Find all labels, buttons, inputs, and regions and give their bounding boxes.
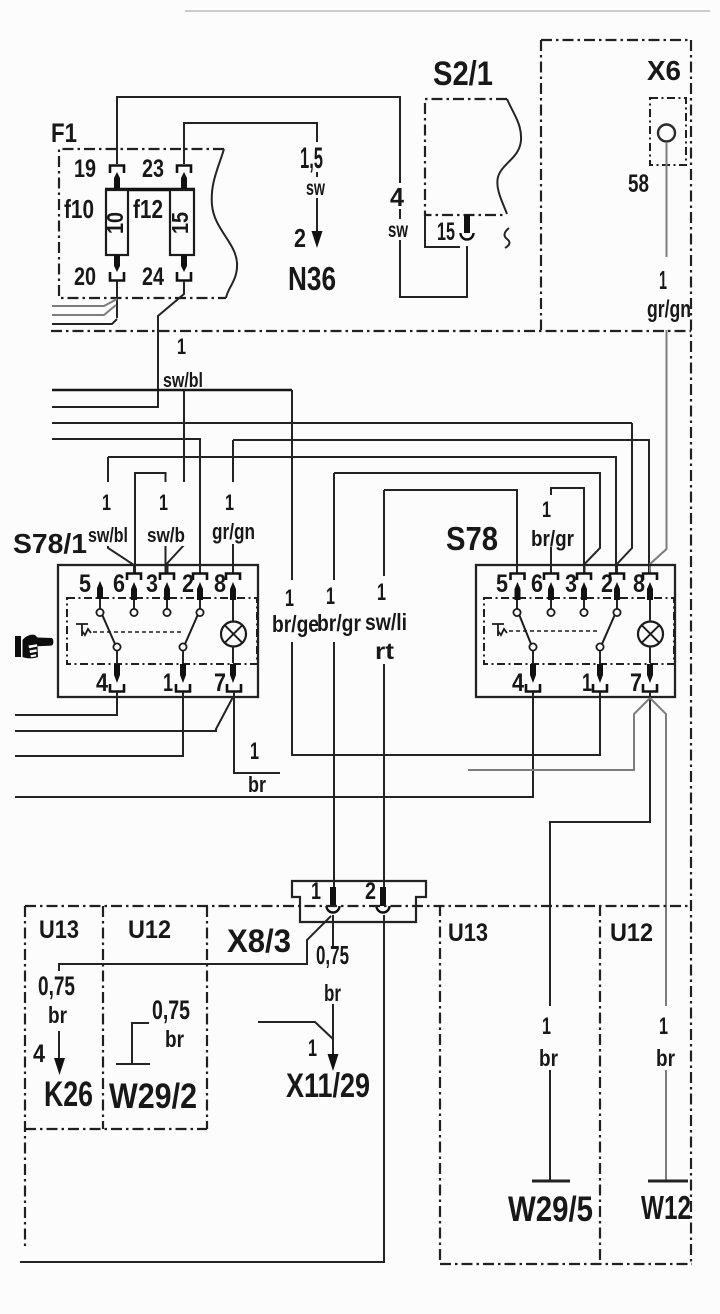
svg-text:1: 1 [163, 669, 173, 697]
svg-text:br: br [248, 772, 266, 797]
S78 pin 1 lower spade [597, 664, 603, 683]
svg-text:1: 1 [326, 583, 335, 610]
svg-text:1: 1 [542, 497, 551, 522]
label sw (wire colour) [304, 177, 327, 198]
svg-text:10: 10 [102, 212, 128, 234]
wire br/gr down to X8/3 pin 1 [333, 473, 335, 888]
S78/1 pin 1 bracket [176, 684, 190, 692]
svg-text:2: 2 [365, 878, 376, 905]
svg-text:gr/gn: gr/gn [647, 296, 691, 323]
svg-text:2: 2 [294, 223, 306, 253]
svg-text:K26: K26 [44, 1075, 93, 1114]
dash-dot divider x207 [206, 906, 208, 1129]
wire F1 pin19 to S2/1 pin15 (top run) [117, 97, 467, 297]
S78/1 pin 4 bracket [110, 684, 124, 692]
S78/1 contact stems top [100, 599, 200, 609]
svg-text:4: 4 [390, 182, 405, 212]
svg-text:N36: N36 [288, 260, 336, 297]
arrow to K26 [54, 1031, 65, 1075]
S78 switch lever 1 [520, 616, 532, 645]
S2/1 pin compartment wavy break [505, 228, 510, 248]
svg-text:1: 1 [102, 490, 111, 515]
S78/1 pin 3 spade [164, 582, 170, 600]
fuse f10 lower spade [114, 255, 120, 272]
label bg br/gr jumper [530, 495, 575, 547]
label bg S78/1 jumper sw/bl [146, 482, 186, 546]
S78 mechanical coupling dashed line [509, 630, 598, 632]
S78 pin 7 bracket [643, 684, 657, 692]
svg-text:19: 19 [74, 155, 96, 183]
svg-text:br: br [324, 980, 341, 1006]
switch unit S78/1 inner dash-dot box [67, 598, 257, 664]
pin 24 bracket [177, 272, 191, 281]
fuse f12 body [170, 190, 194, 255]
svg-text:sw/b: sw/b [147, 525, 185, 547]
svg-text:W29/2: W29/2 [109, 1077, 197, 1116]
svg-text:1: 1 [159, 490, 168, 515]
svg-text:20: 20 [74, 263, 96, 291]
bus wire y457 sw/bl to S78 pin 2 [108, 457, 616, 574]
S78/1 pin 2 bracket [193, 574, 207, 581]
fuse box F1 dash-dot outline with wavy break right edge [59, 149, 237, 298]
wire S78/1 pin4 to left edge [15, 692, 117, 715]
label bg W29/5 wire [536, 1006, 564, 1070]
S78/1 lamp symbol [221, 600, 246, 663]
label bg W12 wire [652, 1006, 680, 1070]
svg-text:br/gr: br/gr [531, 526, 574, 551]
S78 pin 4 lower spade [530, 664, 536, 683]
S78/1 pin 8 bracket [226, 574, 240, 581]
S78/1 switch lever 1 [103, 616, 116, 645]
wire S78 pin7 diagonal stub to x467 [468, 698, 650, 770]
bus wire y439 left segment to S78/1 pin 2 [52, 439, 200, 574]
svg-text:5: 5 [79, 570, 91, 598]
S78/1 switch lever 2 [185, 616, 198, 645]
dash-dot left edge of lower-left boxes [24, 906, 26, 1247]
S78 pin 3 bracket [577, 574, 591, 581]
X6 terminal circle [658, 125, 675, 142]
label 4 (wire size) bg [389, 183, 411, 209]
svg-text:4: 4 [33, 1040, 45, 1068]
switch unit S78/1 outer box [58, 565, 258, 697]
S2/1 pin 15 terminal (bar and cup) [461, 215, 474, 240]
pin 23 spade terminal [181, 172, 187, 189]
S2/1 pin compartment [425, 215, 460, 247]
svg-text:br/ge: br/ge [272, 611, 319, 637]
svg-text:1: 1 [659, 1013, 668, 1040]
S78 pin 6 spade [548, 582, 554, 600]
label bg sw/li rt [366, 576, 408, 664]
S78/1 pin 5 spade [97, 581, 103, 599]
svg-text:S78: S78 [446, 520, 498, 557]
label sw (wire colour) bg [386, 219, 410, 240]
S78 pin 8 bracket [643, 574, 657, 581]
svg-text:24: 24 [142, 263, 164, 291]
pin 23 bracket [177, 166, 191, 174]
S78/1 pin 3 bracket [160, 574, 174, 581]
bus wire y423 to S78 pin 2 [52, 422, 632, 424]
S78/1 T actuator symbol [76, 624, 91, 636]
svg-text:1: 1 [377, 579, 386, 606]
svg-text:br: br [165, 1026, 184, 1052]
svg-text:S78/1: S78/1 [13, 528, 87, 559]
svg-text:U12: U12 [610, 919, 653, 947]
switch unit S78 inner dash-dot box [484, 598, 674, 664]
label bg br/gr [322, 580, 364, 642]
svg-text:0,75: 0,75 [152, 995, 190, 1025]
S78/1 contact circles top [96, 609, 203, 616]
svg-text:3: 3 [146, 570, 158, 598]
svg-text:1: 1 [311, 878, 321, 905]
S78 switch lever 2 [602, 616, 615, 645]
connector X8/3 housing [292, 881, 426, 922]
terminal bar W29/5 [532, 1180, 570, 1183]
S78/1 lower contact circles [113, 643, 186, 650]
S78 pin 5 spade [515, 582, 521, 600]
wire fan from pin20 line 2 [52, 305, 116, 315]
dash-dot divider x103 [102, 906, 104, 1129]
svg-text:br: br [656, 1045, 675, 1071]
svg-text:15: 15 [437, 218, 455, 246]
svg-text:1: 1 [250, 738, 259, 765]
wire S78 pin7 to W29/5 [550, 692, 650, 1181]
S78/1 mechanical coupling dashed line [93, 631, 183, 633]
svg-text:1: 1 [542, 1013, 551, 1040]
svg-text:gr/gn: gr/gn [212, 519, 255, 544]
wire sw/bl main vertical to S78/1 pin 3 [168, 391, 185, 574]
svg-text:U13: U13 [39, 916, 79, 944]
wire F1 pin23 to N36 with arrow [184, 123, 323, 248]
wire fan from pin20 line 3 [52, 319, 117, 324]
S78 lamp symbol [638, 600, 663, 663]
wire X6 58 down [666, 142, 668, 257]
svg-text:6: 6 [531, 570, 543, 598]
svg-text:1: 1 [582, 669, 592, 697]
S78/1 pin 2 spade [197, 582, 203, 600]
switch S2/1 dash-dot box with wavy right edge [425, 99, 521, 215]
label bg gr/gn [212, 482, 256, 544]
S78/1 pin 1 lower spade [180, 664, 186, 683]
svg-text:U13: U13 [448, 919, 488, 947]
bus wire gr/gn y440 S78/1 pin8 to S78 pin8 [233, 440, 649, 574]
svg-text:23: 23 [142, 155, 164, 183]
outer dash-dot border top (X6 compartment) [541, 39, 691, 41]
S78/1 pin 6 spade [131, 582, 137, 600]
fuse f10 body [106, 190, 128, 255]
fuse feed bar [105, 188, 195, 191]
label bg br/ge [272, 580, 321, 642]
S78/1 lower stems [117, 651, 183, 664]
fuse f12 lower spade [181, 255, 187, 272]
S78 pin 5 bracket [511, 574, 525, 581]
wire drop to S78/1 pin 6 [108, 457, 134, 574]
wire X8/3 pin2 down and bottom run [20, 915, 384, 1262]
svg-text:0,75: 0,75 [316, 940, 349, 970]
label bg S78/1 sw/bl feed [88, 482, 130, 546]
svg-text:sw/li: sw/li [365, 609, 407, 635]
svg-text:7: 7 [630, 669, 642, 697]
dash-dot border y906 through X8/3 [25, 905, 692, 907]
S78 pin 8 spade [647, 582, 653, 600]
svg-text:br: br [539, 1045, 558, 1071]
svg-text:6: 6 [113, 570, 125, 598]
svg-text:X11/29: X11/29 [286, 1067, 370, 1105]
S78 pin 2 bracket [610, 574, 624, 581]
S78 pin 2 spade [614, 582, 620, 600]
svg-text:7: 7 [214, 669, 226, 697]
branch wire joining X11/29 run [258, 1022, 333, 1039]
svg-text:W12: W12 [641, 1189, 691, 1226]
switch unit S78 outer box [476, 565, 675, 697]
wire F1 pin20 down [116, 281, 118, 318]
svg-text:4: 4 [512, 669, 524, 697]
S78 lower contact circles [529, 643, 603, 650]
S78 pin 4 bracket [526, 684, 540, 692]
label 1,5 (wire size) [298, 142, 325, 172]
svg-text:1: 1 [308, 1035, 317, 1062]
svg-text:X6: X6 [647, 55, 681, 86]
svg-text:f10: f10 [64, 194, 94, 224]
S78 pin 6 bracket [544, 574, 558, 581]
svg-text:1: 1 [177, 334, 186, 359]
faint top crop line [185, 10, 710, 12]
wire gr/gn drop to S78/1 pin 8 [232, 440, 234, 574]
svg-text:1,5: 1,5 [300, 142, 323, 175]
svg-text:rt: rt [375, 638, 394, 664]
svg-text:W29/5: W29/5 [508, 1190, 593, 1229]
svg-text:0,75: 0,75 [38, 971, 75, 1001]
X8/3 pin 1 terminal (bar and cup) [327, 887, 340, 913]
svg-text:1: 1 [285, 585, 294, 612]
wire X8/3 pin1 to K26 run [59, 916, 331, 971]
dash-dot left edge of lower-right boxes [439, 905, 441, 1264]
pin 19 spade terminal [114, 172, 120, 189]
dash-dot bottom of lower-right boxes [440, 1263, 692, 1265]
svg-text:5: 5 [496, 570, 508, 598]
svg-text:3: 3 [565, 570, 577, 598]
S78/1 pin 8 spade [230, 582, 236, 600]
wire sw/li rt down to X8/3 pin 2 [383, 490, 385, 888]
outer dash-dot border left of X6 compartment [540, 40, 542, 330]
svg-text:F1: F1 [51, 118, 77, 148]
dash-dot divider x600 [599, 905, 601, 1264]
svg-text:sw/bl: sw/bl [163, 370, 203, 392]
wire X6 gr/gn down to S78 pin 8 diagonal [650, 330, 667, 574]
S78 jumper wire pin6 to pin3 [551, 488, 584, 574]
wire fan from pin20 line 1 [52, 299, 117, 306]
S78 pin 1 bracket [593, 684, 607, 692]
wire S78 pin2 diagonal from y423 bus [617, 423, 632, 574]
terminal bar W12 [648, 1180, 688, 1183]
svg-text:sw/bl: sw/bl [88, 525, 128, 547]
wire F1 pin24 down with jog [52, 281, 184, 407]
connector X6 dash-dot box [650, 98, 686, 165]
bus wire y390 to br/ge drop [52, 389, 292, 391]
S78/1 jumper wire pin6 to pin3 [135, 473, 166, 574]
S78 T actuator symbol [492, 624, 507, 636]
svg-text:1: 1 [659, 265, 667, 295]
S78 contact stems top [517, 600, 617, 609]
arrow to X11/29 [328, 1004, 339, 1071]
hand pointer icon [15, 635, 53, 659]
svg-text:br: br [48, 1002, 67, 1028]
svg-text:f12: f12 [133, 194, 163, 224]
wire S78/1 pin7 stub with label 1 br [234, 692, 280, 773]
S78 pin 7 lower spade [647, 664, 653, 683]
svg-text:15: 15 [167, 212, 193, 234]
bus wire y797 S78 pin4 to left edge [15, 692, 533, 797]
S78/1 pin 4 lower spade [114, 664, 120, 683]
pin 19 bracket [110, 166, 124, 174]
wire S78 pin7 to W12 [650, 698, 666, 1181]
svg-text:8: 8 [214, 570, 226, 598]
svg-text:4: 4 [96, 669, 108, 697]
ground terminal W29/2 [116, 1023, 150, 1064]
wire S78/1 pin1 to left edge [15, 692, 183, 756]
S78 lower stems [533, 651, 600, 664]
svg-text:sw: sw [306, 177, 325, 200]
svg-text:U12: U12 [128, 916, 171, 944]
S78/1 pin 7 bracket [227, 684, 241, 692]
svg-text:1: 1 [225, 490, 234, 515]
wire X8/3 pin1 down to X11/29 [332, 915, 334, 947]
dash-dot bottom of lower-left boxes [25, 1128, 207, 1130]
wire br/ge vertical and run to S78 pin 1 [292, 390, 600, 755]
S78/1 pin 6 bracket [127, 574, 141, 581]
outer dash-dot border horizontal y=331 [51, 330, 691, 332]
svg-text:S2/1: S2/1 [433, 55, 493, 93]
bus wire br/gr y473 X8/3 pin1 to S78 pin 3 [334, 473, 600, 574]
svg-text:sw: sw [388, 219, 408, 242]
svg-text:58: 58 [628, 170, 649, 198]
pin 20 bracket [110, 272, 124, 281]
outer dash-dot border right [690, 40, 692, 1264]
bus wire sw/li rt y490 X8/3 pin2 to S78 pin 5 [384, 490, 517, 574]
wire S78/1 pin7 diagonal to left edge [15, 697, 233, 731]
S78 pin 3 spade [581, 582, 587, 600]
svg-text:br/gr: br/gr [317, 610, 361, 636]
S78 contact circles top [513, 609, 620, 616]
S78/1 pin 7 lower spade [230, 664, 236, 683]
svg-text:X8/3: X8/3 [227, 923, 291, 959]
X8/3 pin 2 terminal (bar and cup) [377, 887, 390, 913]
